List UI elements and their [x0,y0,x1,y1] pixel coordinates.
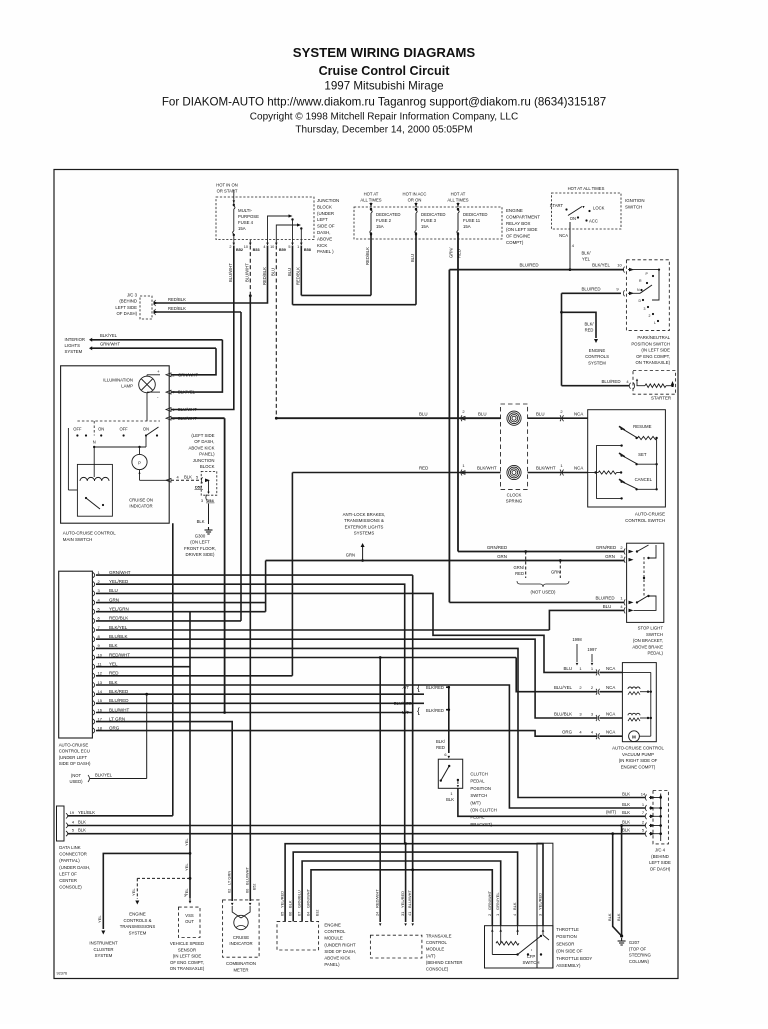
svg-text:OF DASH,: OF DASH, [194,439,214,444]
svg-text:(M/T): (M/T) [606,810,617,815]
svg-text:BLU/RED: BLU/RED [394,701,412,706]
D54 internal arrow [208,480,210,492]
svg-text:67: 67 [297,912,302,916]
svg-text:(UNDER DASH,: (UNDER DASH, [59,865,90,870]
stop light switch pins [624,549,625,555]
svg-text:65: 65 [280,912,285,916]
svg-text:PANEL): PANEL) [199,452,215,457]
svg-text:OUT: OUT [185,919,194,924]
svg-text:(NOT: (NOT [71,773,82,778]
J/C 4 internal bus [660,794,662,842]
wire YEL vertical to VSS [189,612,191,898]
svg-text:M: M [632,734,636,739]
dedicated fuse 2 15A [370,203,372,208]
svg-text:(M/T): (M/T) [470,800,481,805]
svg-text:ON TRANSAXLE): ON TRANSAXLE) [170,966,205,971]
svg-text:A/T: A/T [402,685,409,690]
svg-text:ENGINE COMPT): ENGINE COMPT) [621,764,656,769]
multi-purpose fuse 4 15A [234,206,235,209]
svg-text:POSITION: POSITION [556,934,577,939]
svg-text:HOT IN ON: HOT IN ON [216,183,238,188]
svg-text:LEFT SIDE: LEFT SIDE [115,305,137,310]
svg-text:3: 3 [644,307,646,311]
main switch internal dashed selector [77,420,160,422]
svg-text:BLK: BLK [622,802,630,807]
svg-text:YEL/RED: YEL/RED [400,891,405,908]
ground G207 [621,938,623,941]
svg-text:BLK/: BLK/ [581,251,591,256]
svg-text:5: 5 [196,474,198,479]
svg-text:(ON SIDE OF: (ON SIDE OF [556,949,583,954]
svg-text:BLU: BLU [563,666,572,671]
svg-text:LAMP: LAMP [121,384,133,389]
svg-text:DRIVER SIDE): DRIVER SIDE) [186,552,215,557]
main switch relay coil [77,464,112,516]
svg-text:3: 3 [538,914,543,916]
svg-text:TRANSAXLE: TRANSAXLE [426,934,452,939]
svg-text:RED: RED [436,745,445,750]
engine control module dashed box [277,921,319,950]
svg-text:GRN/WHT: GRN/WHT [109,570,131,575]
svg-text:ENGINE: ENGINE [589,348,606,353]
svg-text:RED/WHT: RED/WHT [375,889,380,908]
svg-text:BLU/BLK: BLU/BLK [109,634,128,639]
auto-cruise control main switch box [61,366,170,523]
svg-text:BLK/WHT: BLK/WHT [477,466,497,471]
svg-text:JUNCTION: JUNCTION [193,458,215,463]
svg-text:B52: B52 [236,248,243,252]
svg-text:BLU/WHT: BLU/WHT [407,889,412,908]
stop light switch box [627,543,664,622]
svg-text:3: 3 [184,893,186,898]
svg-text:GRN/WHT: GRN/WHT [487,890,492,910]
vacuum pump internals: relief valve coils and motor [628,692,640,695]
svg-text:Cruise Control Circuit: Cruise Control Circuit [319,64,451,78]
svg-text:P: P [138,461,141,466]
svg-text:GRN: GRN [551,570,560,575]
svg-text:BLU/RED: BLU/RED [109,698,129,703]
svg-text:2: 2 [229,245,231,249]
svg-text:RED/BLK: RED/BLK [109,616,128,621]
svg-text:INSTRUMENT: INSTRUMENT [89,941,118,946]
main switch pin 4 dashed output [140,479,170,481]
wire TCM 31 riser [405,844,407,922]
svg-text:DEDICATED: DEDICATED [376,212,401,217]
svg-text:(IN RIGHT SIDE OF: (IN RIGHT SIDE OF [619,758,658,763]
svg-text:AUTO-CRUISE CONTROL: AUTO-CRUISE CONTROL [612,746,664,751]
svg-text:ORG: ORG [562,730,573,735]
svg-text:1998: 1998 [572,637,582,642]
starter dashed box [633,371,676,395]
svg-text:COMPT): COMPT) [506,240,524,245]
svg-text:BLK/RED: BLK/RED [426,685,444,690]
main switch pins 2,7,1,5 [166,373,171,377]
wire BLK drops to G207 [613,834,622,936]
svg-text:CLUSTER: CLUSTER [93,947,113,952]
wire BLK row 5 to J/C4 5 [68,833,645,835]
svg-text:BLU/WHT: BLU/WHT [109,707,130,712]
svg-text:BLU: BLU [109,588,118,593]
svg-text:(BEHIND: (BEHIND [651,854,669,859]
wire ECU row 9 BLK to J/C4 14 [96,648,645,797]
svg-text:OFF: OFF [73,427,82,432]
wire YEL junction dots [189,852,192,855]
svg-text:7: 7 [172,390,174,395]
svg-text:D54: D54 [207,498,215,503]
svg-text:NCA: NCA [574,411,583,416]
svg-text:31: 31 [400,912,405,916]
svg-text:BLK: BLK [288,900,293,908]
wire ECM pin 66 BLK row to CFP pin 4 [293,852,517,926]
svg-text:Thursday, December 14, 2000 0: Thursday, December 14, 2000 05:05PM [295,125,472,136]
wire RED row left riser [291,473,293,676]
junction node on B53 wire [249,294,252,297]
svg-text:PANEL): PANEL) [324,962,340,967]
svg-text:ASSEMBLY): ASSEMBLY) [556,963,581,968]
wire BLK/RED merge to clutch switch [446,687,449,753]
svg-text:92376: 92376 [57,972,68,976]
svg-text:SYSTEM: SYSTEM [65,349,83,354]
svg-text:BLK/RED: BLK/RED [109,689,129,694]
wire ECU row 18 ORG to vacuum pump 4 [96,731,597,737]
svg-text:1: 1 [297,245,299,249]
svg-text:ENGINE: ENGINE [506,208,523,213]
svg-text:(A/T): (A/T) [426,953,436,958]
svg-text:RED/BLK: RED/BLK [296,267,301,285]
wire ECU row 3 BLU to vacuum pump 1 [96,593,597,672]
svg-text:For DIAKOM-AUTO http://www.dia: For DIAKOM-AUTO http://www.diakom.ru Tag… [162,96,606,109]
wire ECM pin 67 GRN/BLU row joins CFP pin 1 riser [302,861,501,926]
CFP internals [491,926,493,955]
svg-text:ALL TIMES: ALL TIMES [447,197,468,202]
svg-text:SIDE OF DASH): SIDE OF DASH) [59,761,91,766]
svg-text:GRN: GRN [346,553,355,558]
wire BLU/RED row to stop light pin 1 [449,601,624,603]
svg-text:NCA: NCA [574,466,583,471]
svg-text:OF DASH): OF DASH) [116,311,137,316]
not used brace [517,581,569,587]
wire BLU/RED main row (ignition NCA node) [449,269,570,271]
svg-text:START: START [550,203,564,208]
svg-text:CFP: CFP [527,954,536,959]
svg-text:BLU: BLU [419,411,428,416]
wire GRN row to stop light switch [266,560,624,562]
svg-text:BLU: BLU [478,411,487,416]
main switch lever contacts [146,427,159,436]
wire GRN/RED row to stop light switch [458,551,624,553]
svg-text:STEERING: STEERING [629,953,652,958]
svg-text:BLK: BLK [622,828,630,833]
svg-text:FUSE 3: FUSE 3 [421,218,437,223]
svg-text:RED: RED [419,466,428,471]
wire YEL/BLK row 19 [68,815,173,817]
svg-text:3: 3 [201,498,203,503]
svg-text:YEL/BLK: YEL/BLK [78,810,95,815]
svg-text:G300: G300 [195,534,206,539]
svg-text:JUNCTION: JUNCTION [317,198,339,203]
svg-text:DASH,: DASH, [317,230,330,235]
svg-text:PANEL ): PANEL ) [317,249,334,254]
svg-text:CONSOLE): CONSOLE) [59,885,82,890]
wire riser row1/row19 vertical [172,523,174,816]
svg-text:BLK: BLK [197,519,205,524]
svg-text:SIDE OF: SIDE OF [317,224,335,229]
svg-text:BLU: BLU [603,604,612,609]
svg-text:ORG: ORG [109,725,120,730]
svg-text:B59: B59 [279,248,286,252]
wire BLK to ground G300 [208,504,210,525]
svg-text:ACC: ACC [589,219,598,224]
svg-text:2: 2 [487,914,492,916]
cruise indicator lamp [234,915,248,929]
svg-text:RED: RED [515,571,524,576]
svg-text:ENGINE: ENGINE [129,912,146,917]
engine compartment relay box dashed box [354,207,502,239]
svg-text:CONTROLS: CONTROLS [585,354,609,359]
auto-cruise control ECU box [59,571,93,738]
svg-text:BLU/WHT: BLU/WHT [244,866,249,885]
svg-text:RELAY BOX: RELAY BOX [506,221,531,226]
wire BLK/RED branch to engine controls system [562,312,597,338]
svg-text:GRN/RED: GRN/RED [487,545,507,550]
svg-text:POSITION SWITCH: POSITION SWITCH [631,341,670,346]
svg-text:GRN/RED: GRN/RED [596,545,616,550]
svg-text:1997 Mitsubishi Mirage: 1997 Mitsubishi Mirage [324,80,443,93]
svg-text:DEDICATED: DEDICATED [463,212,488,217]
wire vertical pin 1/B58 to RED/BLK row [300,246,302,296]
clock spring dashed box [501,404,528,489]
svg-text:SYSTEM: SYSTEM [588,360,606,365]
svg-text:BLK: BLK [616,913,621,921]
wire RED row to clock spring [292,472,500,474]
svg-text:YEL/GRN: YEL/GRN [109,607,129,612]
svg-text:2: 2 [172,372,174,377]
svg-text:CONNECTOR: CONNECTOR [59,852,87,857]
svg-text:(IN LEFT SIDE: (IN LEFT SIDE [173,954,202,959]
svg-text:BLK: BLK [446,797,454,802]
svg-text:B32: B32 [316,910,320,916]
svg-text:PARK/NEUTRAL: PARK/NEUTRAL [637,335,670,340]
svg-text:15: 15 [98,698,103,703]
svg-text:ON: ON [570,216,576,221]
svg-text:BLK/RED: BLK/RED [426,708,444,713]
svg-text:19: 19 [70,810,74,815]
svg-text:MODULE: MODULE [426,947,445,952]
svg-text:MAIN SWITCH: MAIN SWITCH [63,537,93,542]
svg-text:CLOCK: CLOCK [507,493,522,498]
wire ECU row 5 YEL/GRN [96,611,266,613]
svg-text:10: 10 [617,263,622,268]
wire vertical BLK/YEL arrow to main switch pin 7 [171,340,222,392]
svg-text:62: 62 [227,889,232,893]
ground G300 [208,527,210,530]
svg-text:SENSOR: SENSOR [556,941,574,946]
svg-text:NCA: NCA [606,730,615,735]
svg-text:BLU/RED: BLU/RED [519,263,538,268]
svg-text:MODULE: MODULE [324,936,343,941]
svg-text:BLU/RED: BLU/RED [595,596,614,601]
svg-text:5: 5 [72,828,74,833]
svg-text:5: 5 [288,245,290,249]
svg-text:MULTI-: MULTI- [238,208,253,213]
svg-text:YEL: YEL [109,662,118,667]
svg-text:PURPOSE: PURPOSE [238,214,259,219]
svg-text:13: 13 [98,680,103,685]
dedicated fuse 3 15A [415,203,417,208]
svg-text:GRN: GRN [109,597,119,602]
svg-text:STOP LIGHT: STOP LIGHT [638,626,664,631]
svg-text:RED: RED [585,328,594,333]
svg-text:LIGHTS: LIGHTS [65,343,81,348]
svg-text:ABOVE KICK: ABOVE KICK [324,956,350,961]
svg-text:GRN: GRN [605,554,615,559]
svg-text:TRANSMISSIONS: TRANSMISSIONS [120,924,156,929]
svg-text:ALL TIMES: ALL TIMES [360,197,381,202]
svg-text:G207: G207 [629,940,640,945]
svg-text:BLK/YEL: BLK/YEL [109,625,128,630]
TPS box [537,843,553,968]
svg-text:BLU: BLU [271,268,276,276]
svg-text:ILLUMINATION: ILLUMINATION [103,378,133,383]
svg-text:IGNITION: IGNITION [625,198,645,203]
svg-text:(PARTIAL): (PARTIAL) [59,858,80,863]
svg-text:NCA: NCA [606,711,615,716]
svg-text:(ON BRACKET,: (ON BRACKET, [633,638,663,643]
ignition switch dashed box [551,193,621,229]
svg-text:RED: RED [457,249,462,258]
svg-text:10: 10 [244,245,248,249]
svg-text:KICK: KICK [317,243,327,248]
switch common rails [656,438,658,489]
svg-text:(TOP OF: (TOP OF [629,946,647,951]
wire BLU/RED trunk vertical [448,270,450,603]
svg-text:ENGINE: ENGINE [324,923,341,928]
svg-text:1: 1 [450,791,452,796]
svg-text:SET: SET [638,452,647,457]
wire ECU row 8 BLU/BLK to vacuum pump 3 [96,639,597,718]
auto-cruise control switch box [588,410,666,507]
svg-text:BLU/RED: BLU/RED [581,287,600,292]
svg-text:+: + [157,369,160,374]
svg-text:ABOVE KICK: ABOVE KICK [188,445,214,450]
svg-text:SENSOR: SENSOR [178,947,196,952]
wire ECU row 17 LT GRN to combination meter [96,722,232,901]
diagram border frame [54,170,678,979]
svg-text:GRN/BLU: GRN/BLU [297,890,302,908]
svg-text:BLOCK: BLOCK [200,464,215,469]
wire BLK/YEL to park/neutral pin 10 [570,269,624,271]
wire BLU row to clock spring [276,417,500,419]
wire RED/BLK J/C3 row 2 drop to ECU row 6 [240,312,242,621]
svg-text:GRN/YEL: GRN/YEL [495,892,500,910]
svg-text:BLU/YEL: BLU/YEL [554,685,573,690]
wire BLU row to stop light pin 4 [549,610,624,630]
svg-text:BLK/: BLK/ [436,739,446,744]
svg-text:18: 18 [98,725,103,730]
junction block D52/D54 dashed box [201,471,217,495]
svg-text:BLK: BLK [512,902,517,910]
svg-text:VSS: VSS [185,913,194,918]
svg-text:METER: METER [233,967,248,972]
svg-text:OFF: OFF [120,427,129,432]
svg-text:OF DASH): OF DASH) [650,866,671,871]
svg-text:CANCEL: CANCEL [635,477,653,482]
wire ECU row 6 RED/BLK (joins J/C3 riser) [96,620,241,622]
svg-text:SYSTEM: SYSTEM [129,930,147,935]
svg-text:SYSTEM WIRING DIAGRAMS: SYSTEM WIRING DIAGRAMS [293,45,476,60]
svg-text:THROTTLE: THROTTLE [556,927,579,932]
wire ECU row 16 BLU/WHT to TCM [96,713,413,923]
auto-cruise control vacuum pump box [622,663,656,742]
svg-text:NCA: NCA [559,233,568,238]
switch input resistor [588,472,599,474]
wire ECU row 7 BLK/YEL to stop light BLU wire [96,629,549,631]
svg-text:THROTTLE BODY: THROTTLE BODY [556,956,592,961]
data link connector box [57,806,65,841]
svg-text:VACUUM PUMP: VACUUM PUMP [622,752,654,757]
svg-text:INDICATOR: INDICATOR [129,504,152,509]
svg-text:CONTROL SWITCH: CONTROL SWITCH [625,518,665,523]
svg-text:EXTERIOR LIGHTS: EXTERIOR LIGHTS [345,524,384,529]
wire GRN/RED trunk vertical from fuse 11 [457,234,459,552]
svg-text:ON: ON [143,427,149,432]
svg-text:BLU/RED: BLU/RED [601,379,620,384]
svg-text:SWITCH: SWITCH [523,960,540,965]
svg-text:CRUISE ON: CRUISE ON [129,498,153,503]
svg-text:BLK/WHT: BLK/WHT [536,466,556,471]
wire RED/BLK J/C3 row 2 [155,311,241,313]
wire YEL dashed to engine controls [137,877,190,879]
svg-text:BLU: BLU [410,254,415,262]
svg-text:BLU: BLU [536,411,545,416]
TPS internals [542,926,544,935]
svg-text:15A: 15A [238,226,246,231]
svg-text:POSITION: POSITION [470,786,491,791]
svg-text:USED): USED) [69,779,83,784]
J/C 3 connector [140,296,152,319]
svg-text:OF ENG COMPT,: OF ENG COMPT, [170,960,204,965]
svg-text:(ON LEFT SIDE: (ON LEFT SIDE [506,227,537,232]
svg-text:15A: 15A [463,224,471,229]
svg-text:15A: 15A [376,224,384,229]
starter internal resistor [637,385,646,387]
svg-text:LEFT: LEFT [317,217,328,222]
svg-text:AUTO-CRUISE CONTROL: AUTO-CRUISE CONTROL [63,531,116,536]
CFP switch box [485,926,553,968]
svg-text:17: 17 [98,716,103,721]
svg-text:6: 6 [444,752,446,757]
svg-text:BLK/YEL: BLK/YEL [178,390,196,395]
svg-text:(NOT USED): (NOT USED) [531,590,557,595]
svg-text:RESUME: RESUME [633,424,652,429]
svg-text:RED/BLK: RED/BLK [262,267,267,285]
svg-text:COLUMN): COLUMN) [629,959,650,964]
wire ECU row 4 GRN to GRN row riser [96,602,266,604]
svg-text:NCA: NCA [606,685,615,690]
wire BLU/WHT meter riser (from junction B53) [249,294,251,901]
svg-text:CONTROL: CONTROL [426,940,448,945]
svg-text:BLK/YEL: BLK/YEL [100,333,118,338]
svg-text:(UNDER RIGHT: (UNDER RIGHT [324,942,356,947]
clock spring coil upper [507,411,521,425]
svg-text:N: N [93,440,96,445]
illumination lamp [139,376,156,393]
svg-text:GRN/: GRN/ [514,565,525,570]
svg-text:YEL/RED: YEL/RED [538,893,543,910]
svg-text:41: 41 [407,912,412,916]
svg-text:YEL/RED: YEL/RED [280,891,285,908]
wire GRN arrow up to anti-lock systems [361,543,365,547]
